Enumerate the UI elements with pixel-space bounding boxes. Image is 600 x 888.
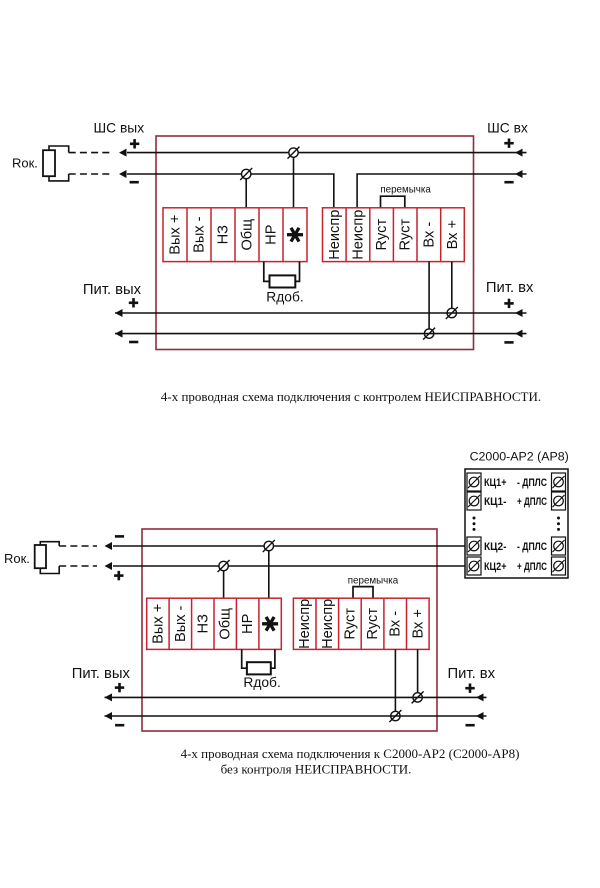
bottom left terminal block	[147, 598, 282, 649]
svg-text:ШС вых: ШС вых	[94, 121, 145, 136]
wire Общ to -ШС rail	[245, 174, 247, 208]
svg-text:без контроля НЕИСПРАВНОСТИ.: без контроля НЕИСПРАВНОСТИ.	[221, 762, 412, 777]
svg-text:4-х проводная схема подключени: 4-х проводная схема подключения с контро…	[161, 389, 541, 404]
svg-text:Вх +: Вх +	[445, 220, 461, 249]
wire: -ШС rail right segment from Неиспр	[357, 174, 526, 208]
device С2000-АР2 (АР8)	[465, 469, 568, 578]
svg-text:Rуст: Rуст	[374, 219, 390, 251]
dashed wire ШС вых -	[69, 173, 110, 175]
minus sign Пит. вых (top)	[129, 341, 138, 344]
wire: -Пит rail (top diagram)	[115, 333, 527, 335]
svg-text:Rдоб.: Rдоб.	[243, 675, 280, 690]
jumper bracket перемычка (top)	[381, 196, 405, 208]
svg-text:ШС вх: ШС вх	[487, 121, 528, 136]
svg-text:КЦ1-: КЦ1-	[484, 496, 507, 508]
junction on -Пит rail at Вх- (top)	[424, 329, 433, 338]
plus sign ШС вх	[504, 142, 513, 145]
arrowhead Пит. вх -	[515, 330, 523, 338]
svg-text:Вых +: Вых +	[150, 604, 166, 644]
wire * to +ШС rail	[293, 153, 295, 208]
terminal КЦ2+ (left screw)	[467, 557, 481, 575]
wire Вх- to -Пит rail (top)	[428, 262, 430, 334]
svg-text:Пит. вх: Пит. вх	[486, 280, 534, 296]
arrowhead Пит. вх + (bottom)	[476, 693, 484, 701]
svg-text:НЗ: НЗ	[195, 614, 211, 634]
minus sign Пит. вх (bottom)	[466, 724, 475, 727]
ellipsis dots right column	[557, 517, 560, 520]
top right terminal block	[323, 208, 465, 262]
resistor Rдоб (top)	[264, 262, 270, 282]
device box (top diagram)	[156, 136, 474, 350]
dashed wire ШС + (bottom)	[59, 565, 97, 567]
wire: -ШС rail to КЦ2-	[113, 545, 467, 547]
terminal КЦ1+ (left screw)	[467, 473, 481, 491]
plus sign Пит. вх (top)	[504, 302, 513, 305]
terminal - ДПЛС (right screw)	[552, 537, 566, 555]
svg-text:Неиспр: Неиспр	[327, 210, 343, 260]
svg-text:НР: НР	[264, 225, 280, 245]
svg-text:- ДПЛС: - ДПЛС	[517, 541, 547, 553]
svg-text:Общ: Общ	[218, 608, 234, 640]
minus sign Пит. вх (top)	[504, 341, 513, 344]
terminal КЦ1- (left screw)	[467, 492, 481, 510]
svg-text:Общ: Общ	[240, 219, 256, 251]
plus sign Пит. вых (bottom)	[115, 686, 124, 689]
plus sign ШС вых	[130, 143, 139, 146]
svg-text:Вх -: Вх -	[388, 611, 404, 637]
wire: +Пит rail (top diagram)	[115, 312, 527, 314]
arrowhead Пит. вых +	[115, 309, 123, 317]
minus sign Пит. вых (bottom)	[115, 724, 124, 727]
svg-text:Вых +: Вых +	[168, 215, 184, 255]
svg-text:Вх -: Вх -	[421, 222, 437, 248]
arrowhead ШС вх +	[515, 149, 523, 157]
minus sign ШС вх	[504, 181, 513, 184]
bottom right terminal block	[293, 598, 429, 649]
junction on +ШС rail at *	[289, 148, 298, 157]
junction on +ШС rail at Общ (bottom)	[219, 561, 228, 570]
top left terminal block	[163, 208, 307, 262]
svg-text:С2000-АР2 (АР8): С2000-АР2 (АР8)	[470, 449, 569, 463]
arrowhead Пит. вых -	[115, 330, 123, 338]
svg-text:Пит. вых: Пит. вых	[83, 282, 142, 298]
arrowhead ШС - (bottom)	[105, 542, 113, 550]
svg-text:НЗ: НЗ	[216, 225, 232, 245]
wire * to -ШС rail (bottom)	[268, 546, 270, 598]
svg-text:Вх +: Вх +	[410, 609, 426, 638]
minus sign ШС вых	[130, 181, 139, 184]
arrowhead Пит. вых - (bottom)	[105, 712, 113, 720]
wire Общ to +ШС rail (bottom)	[223, 566, 225, 598]
arrowhead ШС вх -	[515, 170, 523, 178]
plus sign Пит. вх (bottom)	[465, 687, 474, 690]
wire Вх+ to +Пит rail (top)	[451, 262, 453, 313]
terminal КЦ2- (left screw)	[467, 537, 481, 555]
arrowhead ШС вых +	[119, 149, 127, 157]
minus sign ШС (bottom left)	[115, 535, 124, 538]
wire Вх- to -Пит rail (bottom)	[394, 649, 396, 716]
plus sign ШС (bottom left)	[114, 574, 123, 577]
terminal - ДПЛС (right screw)	[552, 473, 566, 491]
bottom left terminal label * (asterisk)	[262, 617, 278, 631]
arrowhead ШС вых -	[119, 170, 127, 178]
wire: +Пит rail (bottom diagram)	[105, 696, 487, 698]
wire: +ШС rail to КЦ2+	[113, 565, 467, 567]
device box (bottom diagram)	[142, 529, 437, 731]
terminal + ДПЛС (right screw)	[552, 492, 566, 510]
ellipsis dots left column	[473, 517, 476, 520]
junction on +Пит rail at Вх+ (top)	[447, 308, 456, 317]
arrowhead Пит. вх - (bottom)	[476, 712, 484, 720]
arrowhead Пит. вх +	[515, 309, 523, 317]
svg-text:Rдоб.: Rдоб.	[266, 290, 303, 305]
resistor Rдоб (bottom)	[242, 649, 247, 668]
svg-text:НР: НР	[240, 614, 256, 634]
junction on -Пит rail at Вх- (bottom)	[391, 711, 400, 720]
svg-text:Вых -: Вых -	[192, 216, 208, 253]
svg-text:Неиспр: Неиспр	[320, 599, 336, 649]
svg-text:Пит. вх: Пит. вх	[448, 666, 496, 682]
svg-text:Неиспр: Неиспр	[350, 210, 366, 260]
svg-text:перемычка: перемычка	[348, 575, 399, 586]
svg-text:- ДПЛС: - ДПЛС	[517, 477, 547, 489]
svg-text:КЦ2+: КЦ2+	[484, 561, 507, 573]
arrowhead ШС + (bottom)	[105, 562, 113, 570]
resistor Rок (top)	[43, 150, 55, 176]
wire: -Пит rail (bottom diagram)	[105, 715, 487, 717]
plus sign Пит. вых (top)	[129, 301, 138, 304]
svg-text:Rок.: Rок.	[4, 551, 30, 566]
svg-text:перемычка: перемычка	[380, 185, 431, 196]
dashed wire ШС - (bottom)	[59, 545, 97, 547]
arrowhead Пит. вых + (bottom)	[105, 693, 113, 701]
svg-text:Вых -: Вых -	[173, 605, 189, 642]
svg-text:Неиспр: Неиспр	[297, 599, 313, 649]
top left terminal label * (asterisk)	[287, 228, 303, 242]
resistor Rок (bottom)	[35, 545, 46, 568]
wire Вх+ to +Пит rail (bottom)	[417, 649, 419, 697]
svg-text:КЦ2-: КЦ2-	[484, 541, 507, 553]
svg-text:+ ДПЛС: + ДПЛС	[517, 496, 547, 508]
svg-text:Rок.: Rок.	[12, 155, 38, 170]
wire: -ШС rail left segment into Неиспр	[127, 174, 334, 208]
svg-text:Rуст: Rуст	[342, 608, 358, 640]
junction on -ШС rail at * (bottom)	[264, 541, 273, 550]
junction on -ШС rail at Общ	[242, 169, 251, 178]
svg-text:КЦ1+: КЦ1+	[484, 477, 507, 489]
dashed wire ШС вых +	[69, 152, 110, 154]
wire: +ШС rail (top diagram)	[127, 152, 527, 154]
terminal + ДПЛС (right screw)	[552, 557, 566, 575]
svg-text:+ ДПЛС: + ДПЛС	[517, 561, 547, 573]
jumper bracket перемычка (bottom)	[353, 587, 373, 599]
junction on +Пит rail at Вх+ (bottom)	[413, 693, 422, 702]
svg-text:Rуст: Rуст	[398, 219, 414, 251]
svg-text:Пит. вых: Пит. вых	[72, 666, 131, 682]
svg-text:Rуст: Rуст	[365, 608, 381, 640]
svg-text:4-х проводная схема подключени: 4-х проводная схема подключения к С2000-…	[181, 746, 520, 761]
